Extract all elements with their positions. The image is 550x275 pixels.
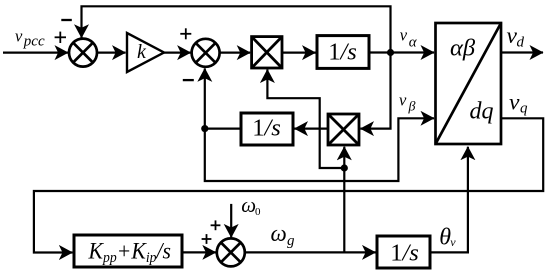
node: v_beta junction dot	[201, 125, 208, 132]
wire: I3 output theta_v up into alpha-beta/dq block bottom	[430, 147, 468, 253]
svg-text:1/s: 1/s	[252, 114, 281, 141]
label theta_v	[439, 225, 456, 251]
label v_d	[507, 23, 525, 51]
wire: gain k to summing junction S2	[163, 51, 191, 53]
wire: I1 output v_alpha to alpha-beta/dq block	[369, 51, 434, 53]
sign: plus at S2	[180, 28, 191, 39]
sign: minus at S1	[61, 19, 72, 21]
summing junction S2	[192, 39, 220, 67]
svg-text:d: d	[517, 35, 525, 51]
svg-text:Kpp+Kip/s: Kpp+Kip/s	[88, 238, 172, 266]
sign: plus (PI input) at S3	[202, 234, 212, 244]
multiplier M1 (box with X)	[252, 37, 282, 68]
svg-text:α: α	[409, 35, 418, 51]
svg-text:k: k	[137, 41, 147, 63]
wire: S2 output to multiplier M1	[220, 51, 251, 53]
svg-text:β: β	[408, 99, 416, 114]
svg-text:v: v	[509, 90, 520, 116]
wire: S3 output omega_g to integrator I3	[245, 251, 376, 253]
sign: plus (omega_0 input) at S3	[211, 220, 221, 230]
wire: v_q output feedback to PI controller input	[34, 118, 543, 252]
label v_q	[509, 90, 528, 117]
wire: omega_g branch left and up to multiplier M1 bottom input	[267, 70, 344, 169]
label omega_0	[241, 193, 261, 218]
alpha-beta/dq transform block U1	[436, 23, 502, 144]
svg-text:1/s: 1/s	[390, 239, 419, 266]
summing junction S1	[69, 39, 97, 67]
wire: v_beta routed down and right into alpha-beta/dq block	[205, 118, 434, 181]
svg-text:αβ: αβ	[450, 34, 476, 61]
integrator block I3 (1/s)	[377, 236, 430, 268]
svg-text:v: v	[450, 235, 456, 249]
label Kpp+Kip/s in PI block	[88, 238, 172, 266]
wire: top feedback from node v_alpha down to S1 minus input	[82, 6, 391, 52]
multiplier M2 (box with X)	[328, 114, 359, 145]
label omega_g	[271, 221, 296, 249]
wire: v_alpha node down to multiplier M2 right input	[361, 53, 391, 129]
svg-text:ω: ω	[271, 221, 287, 246]
svg-text:ω: ω	[241, 193, 256, 217]
svg-text:v: v	[400, 25, 408, 44]
svg-text:1/s: 1/s	[328, 39, 357, 66]
label v_pcc	[15, 26, 45, 49]
wire: v_pcc input to summing junction S1	[3, 51, 68, 53]
integrator block I2 (1/s)	[241, 113, 293, 145]
sign: minus at S2	[183, 79, 194, 81]
wire: omega_g branch up to multiplier M2 bottom input	[343, 147, 345, 253]
node: v_alpha junction dot	[387, 49, 394, 56]
svg-text:g: g	[287, 233, 295, 249]
wire: S1 output to gain k	[97, 51, 126, 53]
svg-text:pcc: pcc	[23, 34, 45, 50]
wire: v_d output arrow	[501, 51, 543, 53]
integrator block I1 (1/s)	[317, 36, 369, 69]
svg-text:v: v	[399, 91, 407, 110]
wire: omega_0 input down into S3	[230, 204, 232, 238]
wire: I2 output v_beta up to S2 minus input	[205, 68, 241, 128]
label v_alpha	[400, 25, 418, 50]
svg-text:q: q	[520, 100, 528, 116]
svg-text:v: v	[15, 26, 23, 45]
gain block k (triangle)	[127, 33, 164, 72]
summing junction S3	[217, 238, 245, 266]
wire: M1 output to integrator I1	[282, 51, 316, 53]
svg-text:dq: dq	[470, 99, 494, 125]
sign: plus at S1	[55, 32, 66, 43]
PI controller block Kpp+Kip/s	[74, 235, 182, 267]
node: omega_g junction dot	[341, 164, 348, 171]
label v_beta	[399, 91, 416, 115]
wire: M2 output to integrator I2	[295, 128, 329, 130]
svg-text:0: 0	[255, 206, 261, 218]
wire: PI output to summing junction S3	[182, 251, 216, 253]
